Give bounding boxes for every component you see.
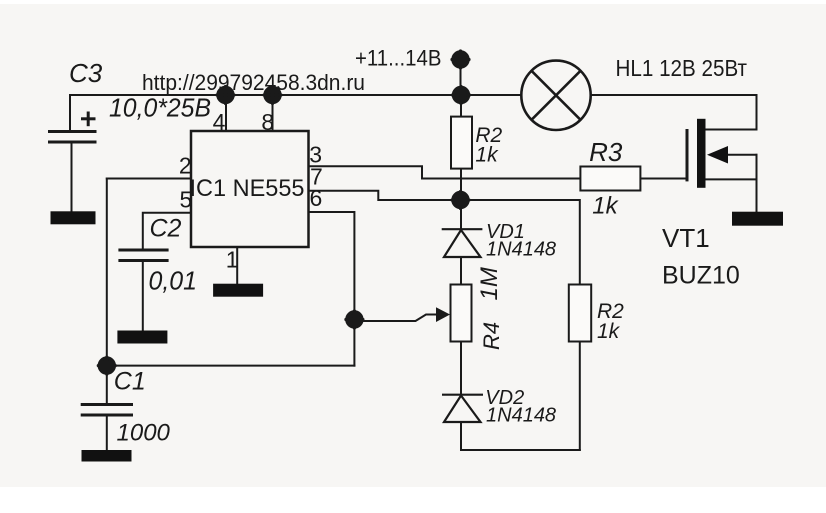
wire VD1 top lead [460,200,462,229]
ground VT1 source [732,212,783,226]
ground C1 [82,450,132,462]
svg-text:8: 8 [261,109,274,135]
svg-text:6: 6 [310,185,323,211]
svg-text:IC1 NE555: IC1 NE555 [190,175,305,202]
svg-text:1M: 1M [476,267,503,300]
svg-text:R3: R3 [589,137,623,167]
wire VD2 bottom lead [460,422,462,450]
wire drain vertical [756,95,758,130]
wire R4 to VD2 [460,342,462,395]
wire R3 to gate [640,178,687,180]
resistor R3 [580,167,640,191]
wire R4 wiper [354,315,438,322]
svg-text:C3: C3 [69,58,103,88]
IC timer IC1 NE555 [191,131,309,247]
gate line [686,129,689,181]
svg-text:1: 1 [226,247,239,273]
svg-text:http://299792458.3dn.ru: http://299792458.3dn.ru [142,70,365,95]
wiper arrowhead [436,307,450,322]
wire bulk stub [706,178,757,180]
wire C1 bottom lead [106,415,108,451]
wire C3 bottom lead [71,143,73,213]
wire C2 bottom lead [142,260,144,331]
node junction dots [98,51,469,374]
svg-text:5: 5 [180,187,193,213]
lamp HL1 [521,61,590,130]
wire drain stub [706,129,757,131]
diode VD2 [442,395,483,422]
wire C1 top lead [106,366,108,405]
capacitor C2 [118,250,168,261]
wire top rail right of lamp [591,94,757,96]
wire pin8 lead [272,95,274,131]
wire R2a bottom lead [460,169,462,201]
wire node to R2b top [461,200,580,285]
svg-text:C1: C1 [114,368,146,396]
svg-text:2: 2 [179,153,192,179]
svg-text:0,01: 0,01 [149,266,198,296]
resistor R2 top [451,117,472,169]
wire left long vertical [106,179,108,366]
node wiper [346,311,363,328]
node discharge [452,192,469,209]
svg-text:1k: 1k [592,193,619,220]
resistor R4 potentiometer [451,285,472,342]
wire source stub [728,154,757,156]
wire supply stub [460,60,462,96]
node C1 [98,357,115,374]
svg-text:HL1 12В 25Вт: HL1 12В 25Вт [616,55,748,81]
wire top rail left of lamp [70,94,521,96]
node supply terminal [452,51,469,68]
wire pin4 lead [225,95,227,131]
svg-text:C2: C2 [150,215,182,243]
wire pin3 to R3 [309,166,581,178]
source arrow [707,146,728,164]
wire pin2 [107,178,191,180]
ground C2 [117,331,167,344]
svg-text:R4: R4 [479,322,504,350]
wire pin1 lead [236,247,238,284]
wire R2b bottom lead [579,342,581,451]
wire bottom node rail [107,365,355,367]
svg-text:4: 4 [213,109,226,135]
node pin8 rail [264,87,281,104]
diode VD1 [442,229,483,257]
wire VD1 to R4 [460,257,462,285]
svg-text:VT1: VT1 [662,223,710,253]
wire pin7 to node [309,191,462,200]
svg-text:1N4148: 1N4148 [486,404,556,426]
svg-text:1N4148: 1N4148 [486,239,556,261]
wire pin6 down [309,212,355,366]
svg-text:1k: 1k [475,144,499,167]
svg-text:+11...14В: +11...14В [355,46,442,71]
wire R2a top lead [460,95,462,117]
wire source vertical [756,155,758,212]
wire pin5 [143,213,191,250]
ground pin1 [213,284,263,297]
svg-text:1k: 1k [597,320,621,343]
svg-text:BUZ10: BUZ10 [662,262,740,290]
wire bottom rail [461,449,580,451]
body bar [697,119,706,188]
node rail-supply [453,87,470,104]
transistor VT1 MOSFET [687,119,728,188]
wire C3 top lead [69,95,71,131]
svg-text:1000: 1000 [117,420,171,447]
svg-text:10,0*25В: 10,0*25В [109,93,211,123]
capacitor C1 [81,405,133,416]
ground C3 [51,211,96,224]
resistor R2 bottom [569,285,591,342]
node pin4 rail [217,87,234,104]
capacitor C3 [48,112,97,143]
